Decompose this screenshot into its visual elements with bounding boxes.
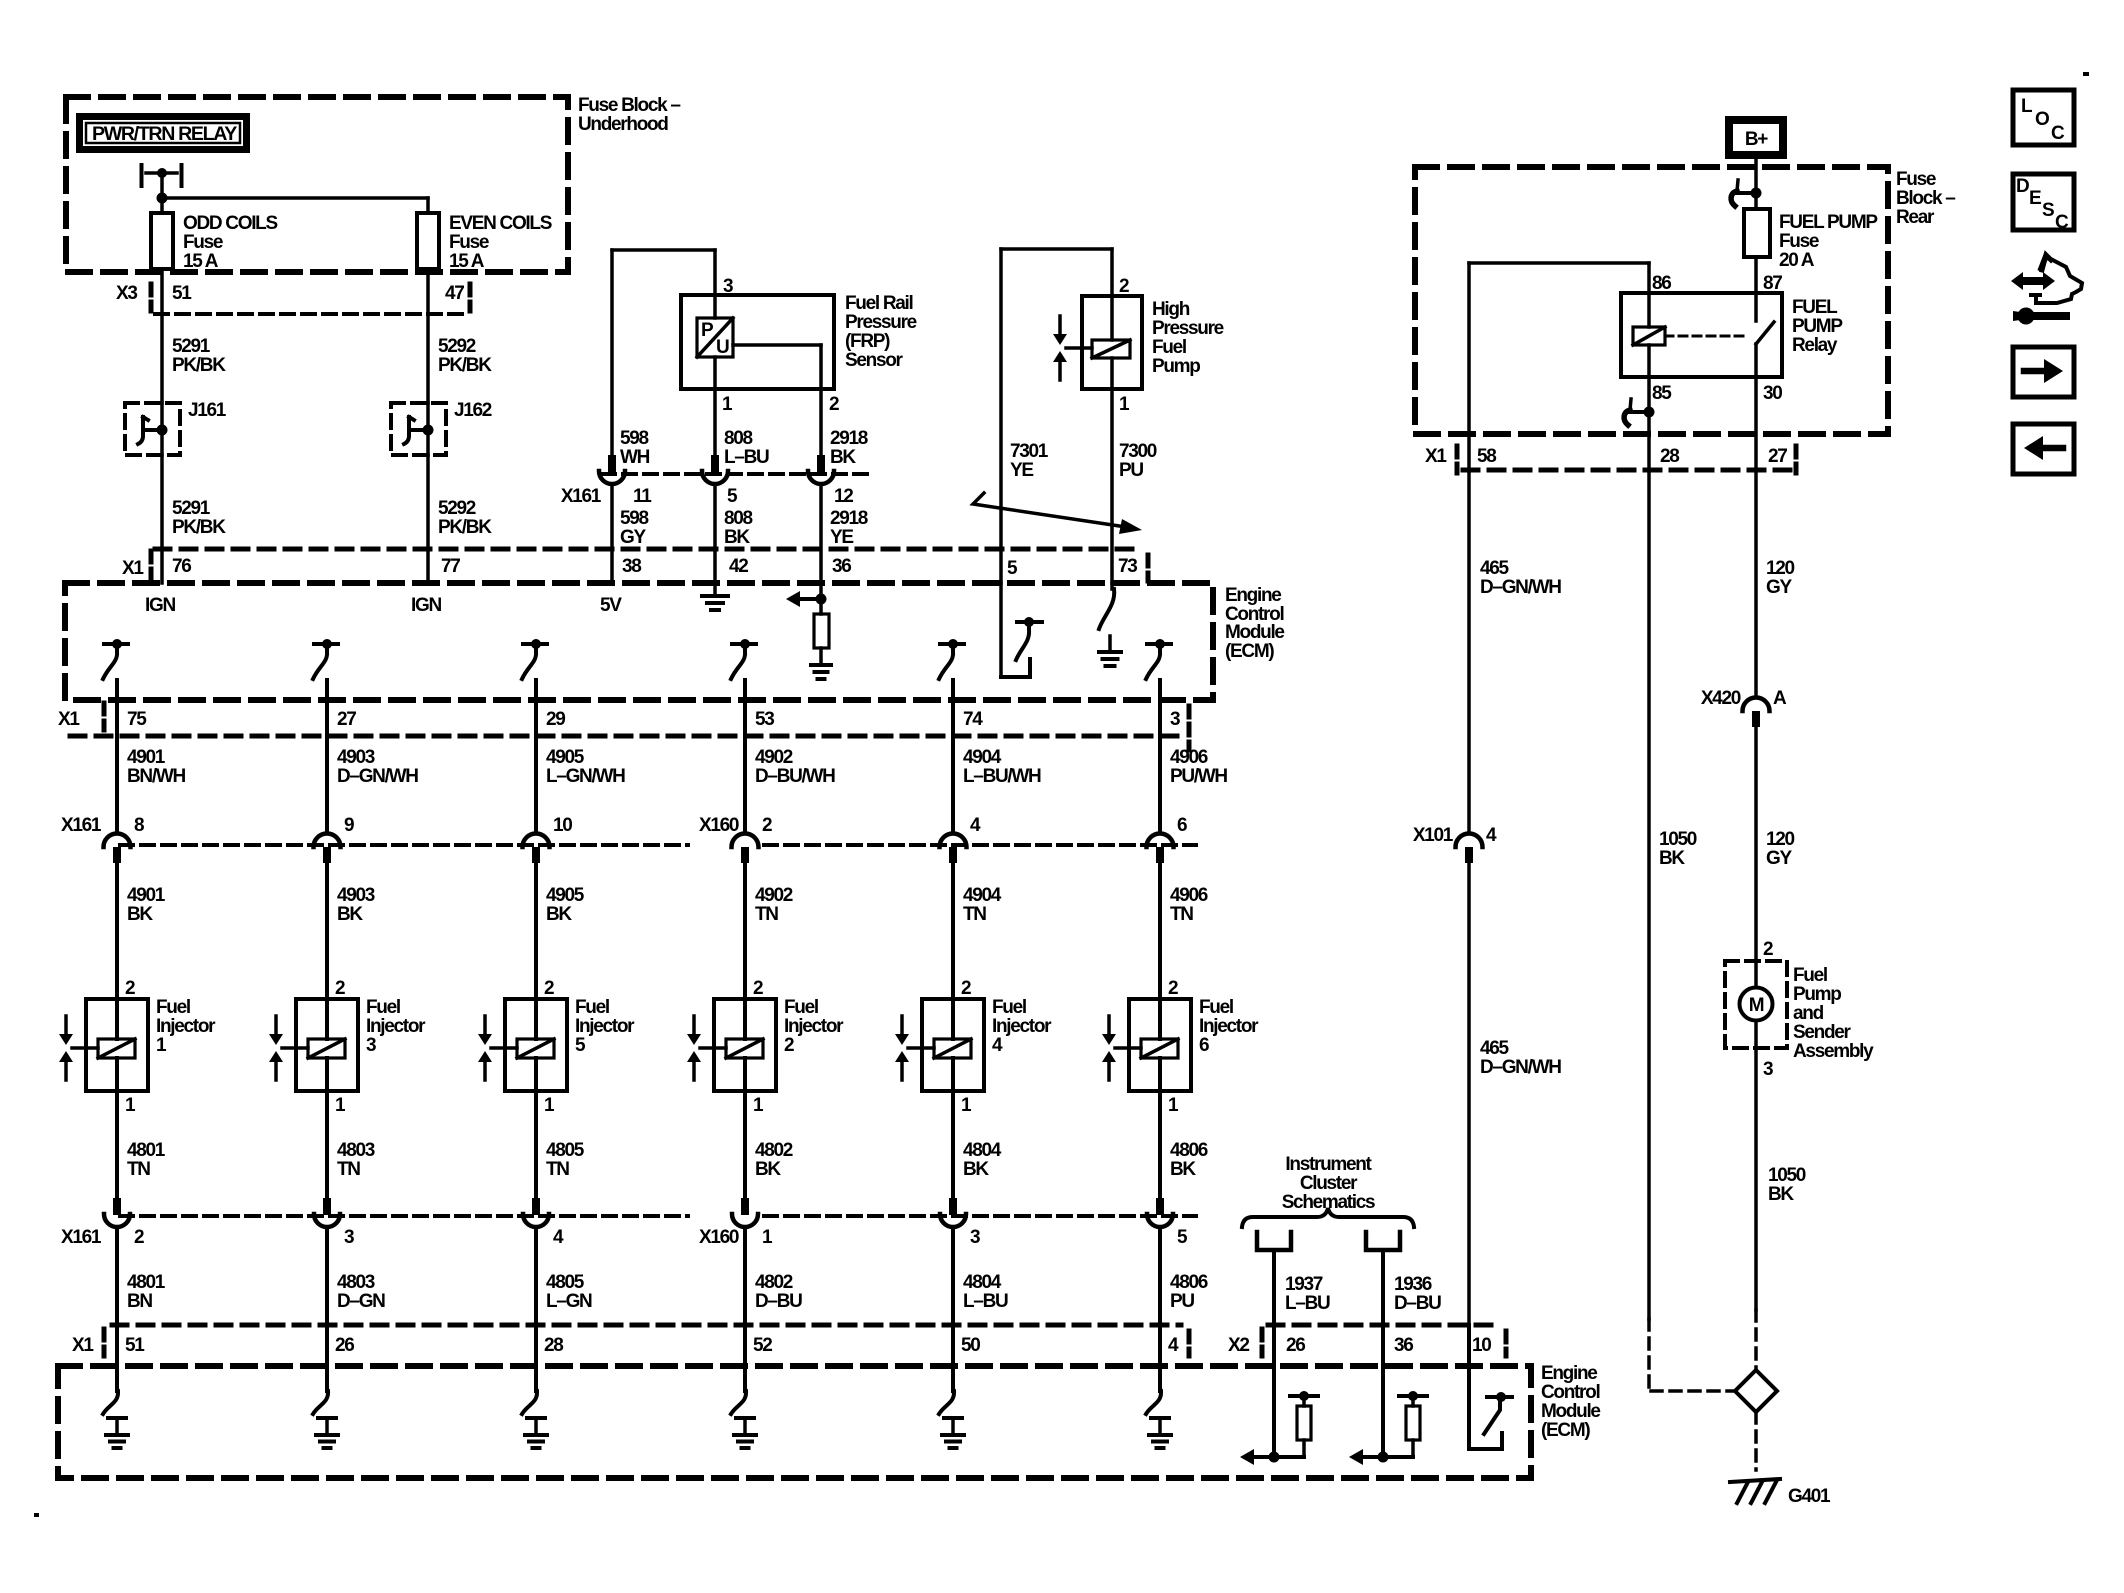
svg-text:A: A bbox=[1773, 688, 1787, 709]
icon vehicle double arrow bbox=[2011, 252, 2082, 325]
wire 1050 BK right bbox=[1756, 1048, 1806, 1310]
wire 4802 D-BU bbox=[745, 1228, 802, 1366]
svg-text:2918: 2918 bbox=[830, 508, 868, 529]
svg-text:4802: 4802 bbox=[755, 1272, 793, 1293]
label FUEL PUMP Relay bbox=[1792, 297, 1843, 356]
svg-text:X2: X2 bbox=[1228, 1335, 1249, 1356]
driver switch ECM output 75 bbox=[103, 639, 128, 679]
svg-text:Fuel: Fuel bbox=[1793, 965, 1827, 986]
wire 5292 PK/BK upper bbox=[426, 269, 430, 403]
svg-text:Injector: Injector bbox=[156, 1016, 216, 1037]
splice J161 bbox=[125, 400, 227, 455]
svg-text:2: 2 bbox=[1119, 276, 1129, 297]
svg-text:74: 74 bbox=[963, 709, 983, 730]
svg-text:2: 2 bbox=[134, 1227, 144, 1248]
ground switch ECM pin 50 bbox=[939, 1366, 964, 1448]
svg-text:808: 808 bbox=[724, 428, 753, 449]
svg-text:X160: X160 bbox=[699, 815, 739, 836]
ground switch ECM pin 26 bbox=[313, 1366, 338, 1448]
svg-text:BK: BK bbox=[337, 904, 363, 925]
splice diamond bbox=[1735, 1370, 1777, 1412]
svg-text:12: 12 bbox=[834, 486, 853, 507]
svg-text:Fuel Rail: Fuel Rail bbox=[845, 293, 913, 314]
connector X1 row top bbox=[122, 549, 1148, 581]
svg-text:TN: TN bbox=[1170, 904, 1193, 925]
svg-text:D–BU: D–BU bbox=[755, 1291, 802, 1312]
svg-text:PU: PU bbox=[1119, 460, 1143, 481]
svg-text:27: 27 bbox=[337, 709, 356, 730]
fuse EVEN COILS 15A bbox=[417, 213, 439, 269]
svg-text:J161: J161 bbox=[188, 400, 227, 421]
svg-text:29: 29 bbox=[546, 709, 565, 730]
svg-text:86: 86 bbox=[1652, 273, 1671, 294]
svg-text:808: 808 bbox=[724, 508, 753, 529]
svg-text:4803: 4803 bbox=[337, 1272, 375, 1293]
svg-text:FUEL: FUEL bbox=[1792, 297, 1838, 318]
svg-text:4903: 4903 bbox=[337, 885, 375, 906]
ground switch ECM pin 52 bbox=[731, 1366, 756, 1448]
pin 5 internal switch bbox=[1001, 583, 1042, 677]
svg-text:Fuse Block –: Fuse Block – bbox=[578, 95, 680, 116]
fuse block underhood box bbox=[66, 97, 568, 272]
injector Fuel Injector 3 bbox=[269, 978, 426, 1116]
label 5292 PK/BK bbox=[438, 336, 492, 376]
svg-text:YE: YE bbox=[830, 527, 853, 548]
svg-text:L–GN/WH: L–GN/WH bbox=[546, 766, 625, 787]
svg-text:7300: 7300 bbox=[1119, 441, 1157, 462]
wire 2918 BK bbox=[819, 389, 823, 455]
svg-text:Fuel: Fuel bbox=[992, 997, 1026, 1018]
svg-text:TN: TN bbox=[337, 1159, 360, 1180]
svg-text:4804: 4804 bbox=[963, 1140, 1002, 1161]
svg-text:PK/BK: PK/BK bbox=[172, 517, 226, 538]
label pin 87 bbox=[1763, 273, 1782, 294]
svg-text:YE: YE bbox=[1010, 460, 1033, 481]
svg-text:4902: 4902 bbox=[755, 885, 793, 906]
svg-text:IGN: IGN bbox=[411, 595, 441, 616]
label Engine Control Module ECM upper bbox=[1225, 585, 1284, 662]
svg-text:2: 2 bbox=[753, 978, 763, 999]
wire diamond to ground bbox=[1754, 1412, 1758, 1470]
svg-text:D–GN/WH: D–GN/WH bbox=[1480, 1057, 1561, 1078]
icon LOC box bbox=[2013, 90, 2074, 145]
battery feed B+ bbox=[1729, 120, 1783, 155]
label pin 2 FRP bbox=[829, 394, 839, 415]
label FUEL PUMP Fuse 20A bbox=[1779, 212, 1878, 271]
svg-text:77: 77 bbox=[441, 556, 460, 577]
svg-text:73: 73 bbox=[1118, 556, 1137, 577]
label pin 1 FRP bbox=[722, 394, 733, 415]
svg-text:2: 2 bbox=[961, 978, 971, 999]
svg-text:75: 75 bbox=[127, 709, 147, 730]
svg-text:Fuel: Fuel bbox=[575, 997, 609, 1018]
svg-text:Pump: Pump bbox=[1793, 984, 1841, 1005]
label pin 30 bbox=[1763, 383, 1782, 404]
svg-text:G401: G401 bbox=[1788, 1486, 1831, 1507]
svg-text:Fuse: Fuse bbox=[1779, 231, 1819, 252]
svg-text:4804: 4804 bbox=[963, 1272, 1002, 1293]
label Fuse Block - Rear bbox=[1896, 169, 1955, 228]
svg-text:1937: 1937 bbox=[1285, 1274, 1323, 1295]
svg-text:Fuse: Fuse bbox=[449, 232, 489, 253]
wire relay 85 down bbox=[1624, 377, 1654, 470]
svg-text:4903: 4903 bbox=[337, 747, 375, 768]
svg-text:BK: BK bbox=[546, 904, 572, 925]
wire 4804 BK bbox=[953, 1091, 1002, 1198]
svg-text:4905: 4905 bbox=[546, 885, 585, 906]
svg-text:L–GN: L–GN bbox=[546, 1291, 592, 1312]
wire 120 GY upper bbox=[1756, 377, 1795, 697]
svg-text:Injector: Injector bbox=[992, 1016, 1052, 1037]
svg-text:2: 2 bbox=[125, 978, 135, 999]
svg-text:Fuel: Fuel bbox=[1152, 337, 1186, 358]
wire 4806 BK bbox=[1160, 1091, 1208, 1198]
label 808 BK bbox=[724, 508, 753, 548]
wire 2918 YE to ECM bbox=[819, 485, 823, 583]
svg-text:7301: 7301 bbox=[1010, 441, 1049, 462]
wire 4901 BK bbox=[117, 863, 166, 999]
wire 4803 TN bbox=[327, 1091, 375, 1198]
svg-text:36: 36 bbox=[832, 556, 851, 577]
ECM upper box bbox=[65, 583, 1213, 700]
wire 4806 PU bbox=[1160, 1228, 1208, 1366]
label IGN pin 76 bbox=[145, 595, 175, 616]
svg-text:Engine: Engine bbox=[1541, 1363, 1597, 1384]
wire ECM pin 27 to injector 3 bbox=[325, 680, 329, 833]
svg-text:120: 120 bbox=[1766, 829, 1795, 850]
wire 4801 TN bbox=[117, 1091, 166, 1198]
svg-text:M: M bbox=[1749, 995, 1764, 1016]
svg-text:26: 26 bbox=[335, 1335, 354, 1356]
wire ECM pin 74 to injector 4 bbox=[951, 680, 955, 833]
svg-text:Injector: Injector bbox=[575, 1016, 635, 1037]
svg-text:4906: 4906 bbox=[1170, 885, 1208, 906]
svg-text:598: 598 bbox=[620, 508, 649, 529]
ground G401 bbox=[1730, 1479, 1831, 1507]
wire 4801 BN bbox=[117, 1228, 166, 1366]
label Fuse Block - Underhood bbox=[578, 95, 680, 135]
svg-text:465: 465 bbox=[1480, 1038, 1510, 1059]
wire 808 BK to ECM bbox=[713, 485, 717, 583]
svg-text:Engine: Engine bbox=[1225, 585, 1281, 606]
svg-text:2918: 2918 bbox=[830, 428, 868, 449]
svg-text:5291: 5291 bbox=[172, 498, 211, 519]
svg-text:Sensor: Sensor bbox=[845, 350, 904, 371]
wire 1937 L-BU bbox=[1274, 1250, 1330, 1366]
svg-text:Block –: Block – bbox=[1896, 188, 1955, 209]
svg-text:5291: 5291 bbox=[172, 336, 211, 357]
wire 465 D-GN/WH upper bbox=[1469, 263, 1561, 833]
svg-text:TN: TN bbox=[755, 904, 778, 925]
connector X161 row sensors bbox=[561, 455, 875, 507]
label 7300 PU bbox=[1119, 441, 1157, 481]
svg-text:Pressure: Pressure bbox=[845, 312, 917, 333]
svg-text:42: 42 bbox=[729, 556, 748, 577]
svg-text:20 A: 20 A bbox=[1779, 250, 1815, 271]
svg-text:D–BU/WH: D–BU/WH bbox=[755, 766, 835, 787]
svg-text:P: P bbox=[701, 320, 714, 341]
svg-text:TN: TN bbox=[963, 904, 986, 925]
svg-text:3: 3 bbox=[1763, 1059, 1773, 1080]
svg-text:38: 38 bbox=[622, 556, 641, 577]
label pin 3 fuel pump bbox=[1763, 1059, 1773, 1080]
label ODD COILS Fuse 15A bbox=[183, 213, 277, 272]
label pin 3 FRP bbox=[723, 276, 733, 297]
svg-text:2: 2 bbox=[335, 978, 345, 999]
svg-text:BK: BK bbox=[1170, 1159, 1196, 1180]
svg-text:Pressure: Pressure bbox=[1152, 318, 1224, 339]
connector X1 bottom row bbox=[72, 1325, 1189, 1356]
fuse block rear box bbox=[1415, 167, 1888, 434]
svg-text:76: 76 bbox=[172, 556, 191, 577]
svg-text:X3: X3 bbox=[116, 283, 137, 304]
svg-text:Fuse: Fuse bbox=[1896, 169, 1936, 190]
label EVEN COILS Fuse 15A bbox=[449, 213, 552, 272]
relay FUEL PUMP bbox=[1469, 263, 1782, 377]
sensor FRP Fuel Rail Pressure bbox=[681, 295, 834, 389]
label Fuel Pump and Sender Assembly bbox=[1793, 965, 1874, 1062]
svg-text:X161: X161 bbox=[61, 1227, 102, 1248]
connector X1 rear row bbox=[1425, 446, 1796, 473]
wire 4906 TN bbox=[1160, 863, 1208, 999]
wire fuse to relay 87 bbox=[1754, 257, 1758, 321]
svg-text:S: S bbox=[2042, 200, 2054, 221]
svg-text:FUEL PUMP: FUEL PUMP bbox=[1779, 212, 1878, 233]
svg-text:28: 28 bbox=[1660, 446, 1679, 467]
wire dashed to splice diamond bbox=[1649, 1310, 1756, 1391]
label 2918 BK bbox=[830, 428, 868, 468]
wire relay to fuses bbox=[157, 173, 429, 213]
svg-text:O: O bbox=[2035, 109, 2049, 130]
injector Fuel Injector 6 bbox=[1102, 978, 1259, 1116]
svg-text:4802: 4802 bbox=[755, 1140, 793, 1161]
svg-text:EVEN COILS: EVEN COILS bbox=[449, 213, 552, 234]
wire ECM pin 53 to injector 2 bbox=[743, 680, 747, 833]
svg-text:X160: X160 bbox=[699, 1227, 739, 1248]
svg-text:Fuse: Fuse bbox=[183, 232, 223, 253]
svg-text:Injector: Injector bbox=[1199, 1016, 1259, 1037]
svg-text:2: 2 bbox=[784, 1035, 794, 1056]
svg-text:Fuel: Fuel bbox=[156, 997, 190, 1018]
label 598 WH bbox=[620, 428, 650, 468]
svg-text:120: 120 bbox=[1766, 558, 1795, 579]
svg-text:J162: J162 bbox=[454, 400, 492, 421]
wire 5291 PK/BK upper bbox=[160, 269, 164, 403]
label 4904 L-BU/WH bbox=[963, 747, 1041, 787]
svg-text:High: High bbox=[1152, 299, 1190, 320]
label Engine Control Module ECM lower bbox=[1541, 1363, 1600, 1441]
svg-text:11: 11 bbox=[633, 486, 652, 507]
svg-text:85: 85 bbox=[1652, 383, 1672, 404]
svg-text:4805: 4805 bbox=[546, 1272, 585, 1293]
svg-text:58: 58 bbox=[1477, 446, 1496, 467]
label 4901 BN/WH bbox=[127, 747, 185, 787]
svg-text:BK: BK bbox=[755, 1159, 781, 1180]
brace instrument cluster bbox=[1242, 1208, 1414, 1227]
wire 4804 L-BU bbox=[953, 1228, 1008, 1366]
svg-text:PK/BK: PK/BK bbox=[438, 517, 492, 538]
svg-text:47: 47 bbox=[445, 283, 464, 304]
svg-text:5V: 5V bbox=[600, 595, 622, 616]
ground switch ECM pin 28 bbox=[522, 1366, 547, 1448]
ground pin 42 internal bbox=[702, 583, 728, 610]
svg-text:BK: BK bbox=[127, 904, 153, 925]
svg-text:3: 3 bbox=[970, 1227, 980, 1248]
pin 10 internal switch bbox=[1469, 1325, 1512, 1449]
svg-text:X1: X1 bbox=[72, 1335, 94, 1356]
resistor internal pin 26 bbox=[1240, 1366, 1318, 1465]
svg-text:X420: X420 bbox=[1701, 688, 1741, 709]
svg-text:GY: GY bbox=[1766, 848, 1792, 869]
svg-text:2: 2 bbox=[762, 815, 772, 836]
svg-text:B+: B+ bbox=[1745, 129, 1768, 150]
svg-text:4805: 4805 bbox=[546, 1140, 585, 1161]
svg-text:X1: X1 bbox=[58, 709, 80, 730]
svg-text:3: 3 bbox=[1170, 709, 1180, 730]
svg-text:D–GN/WH: D–GN/WH bbox=[337, 766, 418, 787]
fuse FUEL PUMP 20A bbox=[1744, 209, 1770, 257]
svg-text:Sender: Sender bbox=[1793, 1022, 1852, 1043]
svg-text:27: 27 bbox=[1768, 446, 1787, 467]
label 808 L-BU bbox=[724, 428, 769, 468]
svg-text:BN/WH: BN/WH bbox=[127, 766, 185, 787]
svg-text:U: U bbox=[716, 337, 729, 358]
loop terminal 1936 bbox=[1366, 1232, 1400, 1250]
svg-text:D: D bbox=[2016, 176, 2029, 197]
svg-text:BK: BK bbox=[830, 447, 856, 468]
fuse ODD COILS 15A bbox=[151, 213, 173, 269]
svg-text:2: 2 bbox=[1168, 978, 1178, 999]
svg-text:4904: 4904 bbox=[963, 885, 1002, 906]
label IGN pin 77 bbox=[411, 595, 441, 616]
svg-text:4806: 4806 bbox=[1170, 1272, 1208, 1293]
resistor internal pin 36 bbox=[1349, 1366, 1427, 1465]
svg-text:BK: BK bbox=[963, 1159, 989, 1180]
wire 808 L-BU bbox=[713, 389, 717, 455]
svg-text:Module: Module bbox=[1225, 622, 1284, 643]
svg-text:4801: 4801 bbox=[127, 1272, 166, 1293]
svg-text:2: 2 bbox=[829, 394, 839, 415]
connector X3 row bbox=[116, 283, 470, 314]
wire 4903 BK bbox=[327, 863, 375, 999]
wire 4803 D-GN bbox=[327, 1228, 385, 1366]
svg-text:C: C bbox=[2055, 212, 2069, 233]
svg-text:26: 26 bbox=[1286, 1335, 1305, 1356]
svg-text:87: 87 bbox=[1763, 273, 1782, 294]
svg-text:1050: 1050 bbox=[1659, 829, 1697, 850]
svg-text:51: 51 bbox=[172, 283, 192, 304]
svg-text:C: C bbox=[2051, 123, 2065, 144]
svg-text:L–BU: L–BU bbox=[1285, 1293, 1330, 1314]
wire 5292 PK/BK lower bbox=[426, 455, 430, 583]
wire 7301 YE bbox=[1001, 249, 1112, 583]
svg-text:PK/BK: PK/BK bbox=[438, 355, 492, 376]
svg-text:PU/WH: PU/WH bbox=[1170, 766, 1227, 787]
svg-text:L–BU: L–BU bbox=[724, 447, 769, 468]
svg-text:BK: BK bbox=[724, 527, 750, 548]
svg-text:Fuel: Fuel bbox=[784, 997, 818, 1018]
svg-text:D–BU: D–BU bbox=[1394, 1293, 1441, 1314]
label pin 2 pump bbox=[1119, 276, 1129, 297]
svg-text:Cluster: Cluster bbox=[1300, 1173, 1358, 1194]
label 2918 YE bbox=[830, 508, 868, 548]
label 5291 PK/BK bbox=[172, 336, 226, 376]
label 4906 PU/WH bbox=[1170, 747, 1227, 787]
svg-text:L–BU: L–BU bbox=[963, 1291, 1008, 1312]
svg-text:X161: X161 bbox=[61, 815, 102, 836]
svg-text:Pump: Pump bbox=[1152, 356, 1200, 377]
label 5V pin 38 bbox=[600, 595, 622, 616]
wire ECM pin 75 to injector 1 bbox=[115, 680, 119, 833]
svg-text:3: 3 bbox=[344, 1227, 354, 1248]
svg-text:Fuel: Fuel bbox=[366, 997, 400, 1018]
svg-text:50: 50 bbox=[961, 1335, 980, 1356]
svg-text:GY: GY bbox=[1766, 577, 1792, 598]
injector Fuel Injector 5 bbox=[478, 978, 635, 1116]
svg-text:2: 2 bbox=[544, 978, 554, 999]
icon DESC box bbox=[2013, 174, 2074, 233]
label 4903 D-GN/WH bbox=[337, 747, 418, 787]
svg-text:GY: GY bbox=[620, 527, 646, 548]
label 598 GY bbox=[620, 508, 649, 548]
svg-text:Injector: Injector bbox=[784, 1016, 844, 1037]
wire 5291 PK/BK lower bbox=[160, 455, 164, 583]
svg-text:and: and bbox=[1793, 1003, 1824, 1024]
label Fuel Rail Pressure (FRP) Sensor bbox=[845, 293, 917, 371]
svg-text:BN: BN bbox=[127, 1291, 152, 1312]
pump High Pressure Fuel Pump bbox=[1053, 249, 1142, 389]
svg-text:10: 10 bbox=[553, 815, 572, 836]
label 7301 YE bbox=[1010, 441, 1049, 481]
wire ECM pin 3 to injector 6 bbox=[1158, 680, 1162, 833]
svg-text:PWR/TRN RELAY: PWR/TRN RELAY bbox=[92, 124, 238, 145]
label 4902 D-BU/WH bbox=[755, 747, 835, 787]
svg-text:10: 10 bbox=[1472, 1335, 1491, 1356]
svg-text:51: 51 bbox=[125, 1335, 145, 1356]
svg-text:6: 6 bbox=[1177, 815, 1187, 836]
ground switch ECM pin 51 bbox=[103, 1366, 128, 1448]
svg-text:BK: BK bbox=[1659, 848, 1685, 869]
wire 4802 BK bbox=[745, 1091, 793, 1198]
svg-text:Control: Control bbox=[1541, 1382, 1599, 1403]
crossing leader arrow bbox=[973, 493, 1142, 534]
svg-text:Injector: Injector bbox=[366, 1016, 426, 1037]
label Instrument Cluster Schematics bbox=[1282, 1154, 1375, 1213]
svg-text:4901: 4901 bbox=[127, 747, 166, 768]
svg-text:30: 30 bbox=[1763, 383, 1782, 404]
pin 73 internal switch to ground bbox=[1099, 583, 1121, 666]
injector Fuel Injector 4 bbox=[895, 978, 1052, 1116]
injector Fuel Injector 2 bbox=[687, 978, 844, 1116]
svg-text:PU: PU bbox=[1170, 1291, 1194, 1312]
svg-text:E: E bbox=[2029, 188, 2041, 209]
svg-text:4803: 4803 bbox=[337, 1140, 375, 1161]
driver switch ECM output 74 bbox=[939, 639, 964, 679]
splice J162 bbox=[391, 400, 492, 455]
svg-text:598: 598 bbox=[620, 428, 649, 449]
svg-text:L–BU/WH: L–BU/WH bbox=[963, 766, 1041, 787]
svg-text:4905: 4905 bbox=[546, 747, 585, 768]
svg-text:(FRP): (FRP) bbox=[845, 331, 890, 352]
wire 4904 TN bbox=[953, 863, 1002, 999]
svg-text:X101: X101 bbox=[1413, 825, 1454, 846]
wire 598 WH bbox=[612, 250, 715, 455]
wire 120 GY to pump bbox=[1754, 727, 1758, 961]
driver switch ECM output 3 bbox=[1146, 639, 1171, 679]
loop terminal 1937 bbox=[1257, 1232, 1291, 1250]
label 4905 L-GN/WH bbox=[546, 747, 625, 787]
svg-text:X1: X1 bbox=[122, 558, 144, 579]
